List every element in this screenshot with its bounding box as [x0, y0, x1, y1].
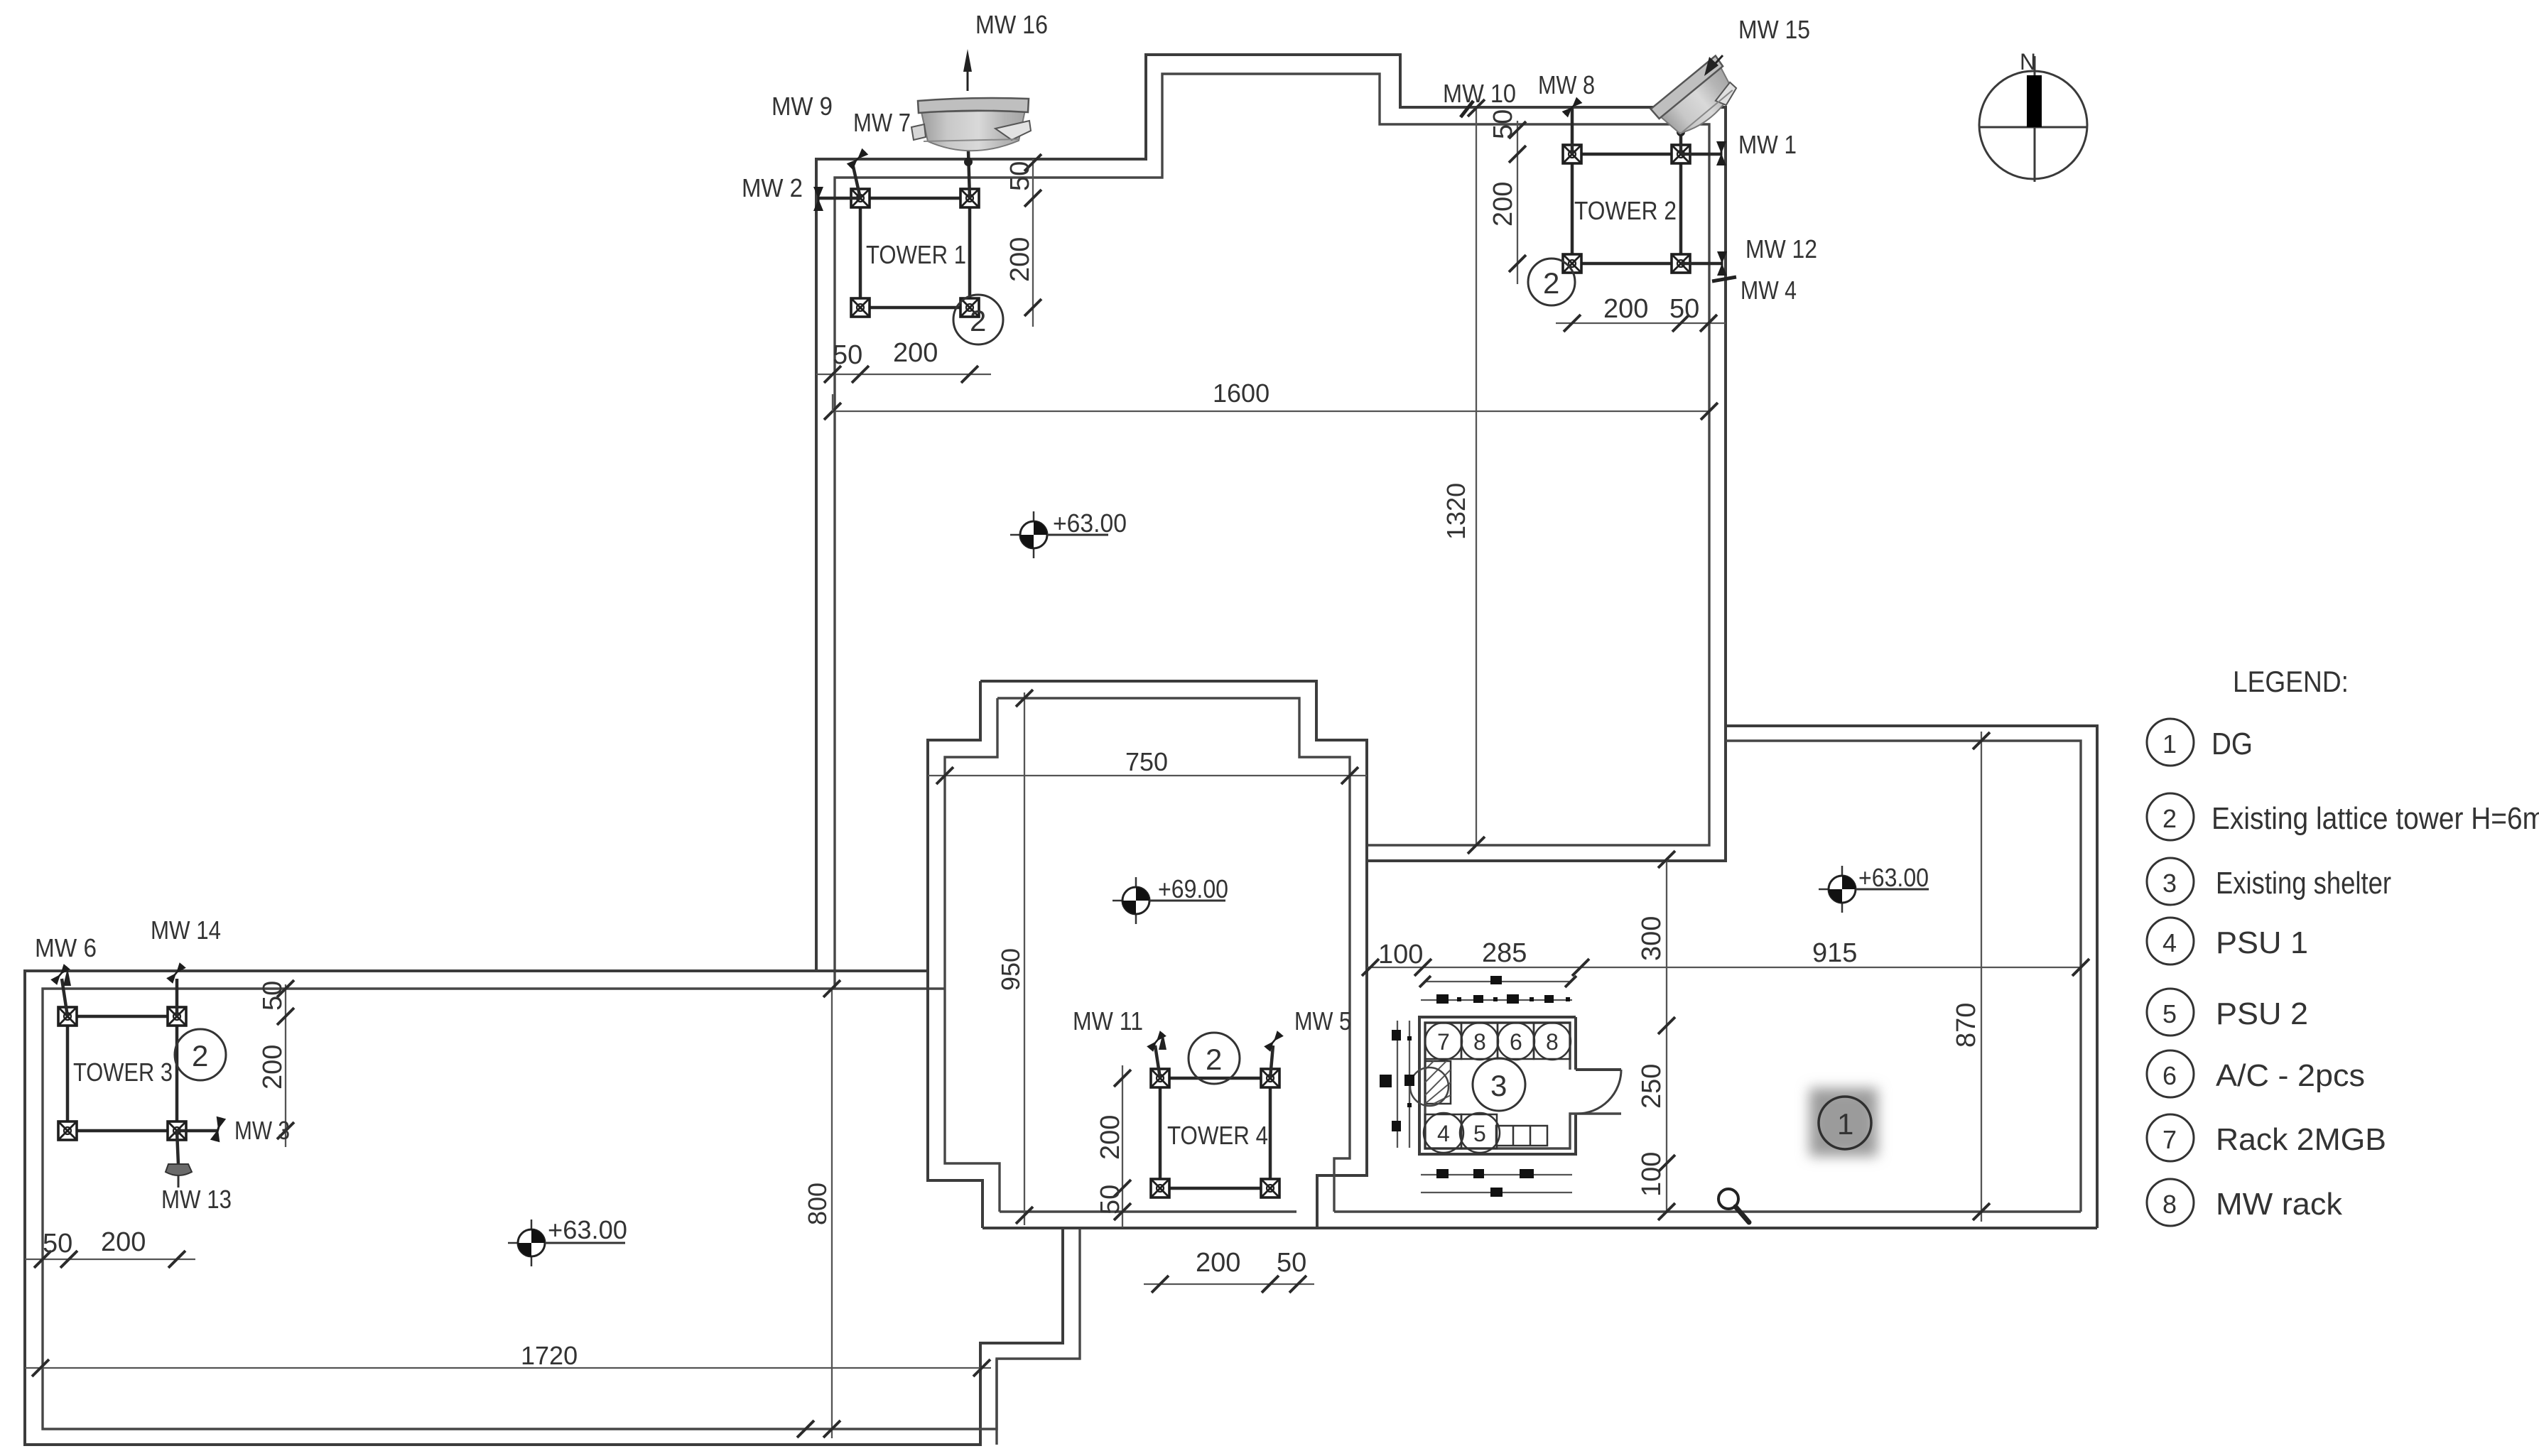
circle label 2 tower2 — [1528, 259, 1575, 305]
svg-text:950: 950 — [996, 948, 1025, 991]
post T1 SE — [960, 298, 979, 317]
wall: central structure outer — [928, 681, 1367, 1228]
svg-text:8: 8 — [1546, 1029, 1559, 1055]
svg-text:5: 5 — [1473, 1121, 1486, 1146]
svg-text:MW 12: MW 12 — [1745, 234, 1817, 264]
wire MW6 feed — [62, 979, 67, 1016]
rack row squares 7/8/6/8 — [1425, 1023, 1571, 1060]
dim 800 — [803, 980, 840, 1438]
svg-text:50: 50 — [833, 340, 862, 370]
dim tower1 horizontal 50/200 — [816, 338, 991, 383]
shelter door arc — [1577, 1070, 1621, 1114]
svg-text:MW 10: MW 10 — [1443, 79, 1516, 108]
svg-text:MW 2: MW 2 — [742, 173, 803, 202]
antenna MW6 — [50, 964, 70, 985]
svg-text:3: 3 — [2162, 869, 2177, 898]
arrow MW15 — [1704, 55, 1723, 76]
svg-text:+63.00: +63.00 — [548, 1215, 627, 1244]
post T2 SW — [1563, 254, 1581, 273]
PSU squares 4/5 — [1424, 1113, 1500, 1153]
svg-text:MW 5: MW 5 — [1294, 1006, 1351, 1036]
antenna MW12 — [1717, 251, 1727, 276]
tower T4 frame — [1160, 1078, 1270, 1188]
svg-text:MW 11: MW 11 — [1073, 1006, 1143, 1036]
post T1 SW — [851, 298, 870, 317]
wall: corridor stub below — [995, 1359, 997, 1445]
svg-text:MW 1: MW 1 — [1738, 130, 1797, 159]
svg-text:8: 8 — [1473, 1029, 1486, 1055]
svg-text:MW 9: MW 9 — [772, 92, 833, 121]
node MW7 — [964, 158, 973, 166]
wire corner feed — [1679, 128, 1683, 154]
benchmark +63.00 upper — [1010, 509, 1127, 558]
wire MW5 feed — [1270, 1045, 1273, 1078]
circle label 2 tower1 — [953, 295, 1003, 344]
shelter inner wall — [1425, 1023, 1621, 1148]
cable tray below shelter — [1421, 1169, 1572, 1197]
wire MW14 feed — [175, 979, 179, 1016]
dim tower1 vertical 50/200 — [1005, 154, 1041, 327]
antenna MW2 — [813, 187, 823, 211]
magnifier mark — [1718, 1189, 1749, 1222]
post T2 NE — [1672, 145, 1690, 163]
svg-text:750: 750 — [1125, 747, 1168, 776]
wire MW12 feed — [1681, 262, 1722, 266]
antenna MW1 — [1716, 141, 1726, 165]
svg-text:800: 800 — [803, 1183, 832, 1225]
wall: bottom edge of central + right section (outer) — [982, 1227, 2097, 1229]
cable tray above shelter — [1419, 976, 1576, 1004]
svg-text:285: 285 — [1482, 938, 1527, 968]
node T2 — [1677, 128, 1685, 136]
dim 1320 — [1441, 99, 1485, 854]
circle label 3 shelter — [1473, 1058, 1525, 1111]
wire MW11 feed — [1155, 1045, 1160, 1078]
antenna MW11 — [1147, 1031, 1166, 1052]
wall: lower-right rectangle inner — [1726, 741, 2081, 1212]
arrow MW6 — [63, 968, 71, 986]
benchmark +69.00 central — [1112, 874, 1228, 924]
dim 1720 — [25, 1341, 991, 1376]
dim tower3 vertical 50/200 — [258, 980, 294, 1147]
svg-text:5: 5 — [2162, 999, 2177, 1028]
arrow MW11 — [1159, 1033, 1166, 1050]
svg-text:2: 2 — [192, 1039, 208, 1072]
svg-text:MW 14: MW 14 — [151, 916, 221, 945]
tower T3 frame — [67, 1016, 177, 1131]
svg-text:MW 4: MW 4 — [1741, 276, 1797, 305]
svg-text:1720: 1720 — [521, 1341, 578, 1370]
antenna MW3 — [210, 1117, 226, 1142]
svg-text:2: 2 — [970, 304, 986, 337]
shelter outer wall — [1419, 1017, 1621, 1154]
post T3 SW — [58, 1121, 77, 1140]
svg-text:MW 6: MW 6 — [35, 933, 97, 962]
svg-text:Existing lattice tower H=6m: Existing lattice tower H=6m — [2212, 801, 2539, 836]
wall: lower-right rectangle outer — [1726, 726, 2097, 1228]
wall: upper-left+top inner boundary — [835, 74, 1709, 989]
svg-text:1320: 1320 — [1441, 483, 1471, 540]
svg-text:MW 16: MW 16 — [975, 10, 1048, 39]
svg-text:50: 50 — [258, 981, 288, 1011]
svg-text:PSU 2: PSU 2 — [2216, 996, 2308, 1031]
post T1 NE — [960, 189, 979, 207]
svg-text:6: 6 — [2162, 1061, 2177, 1090]
circle label 2 tower4 — [1189, 1033, 1240, 1084]
svg-text:+63.00: +63.00 — [1053, 509, 1127, 538]
svg-text:1: 1 — [2162, 729, 2177, 759]
dim tower3 horizontal 50/200 — [25, 1227, 195, 1268]
svg-text:PSU 1: PSU 1 — [2216, 925, 2308, 960]
wire MW8 feed — [1571, 108, 1574, 154]
dim 300/250/100 vertical chain — [1637, 851, 1675, 1220]
svg-text:100: 100 — [1637, 1152, 1667, 1197]
svg-text:200: 200 — [1488, 182, 1518, 227]
wire MW7 feed — [968, 151, 970, 198]
svg-text:LEGEND:: LEGEND: — [2233, 665, 2349, 698]
antenna MW15 drum — [1650, 55, 1744, 143]
antenna MW10 mark — [1461, 101, 1473, 117]
svg-text:200: 200 — [1005, 237, 1035, 282]
dim 1600 — [824, 379, 1718, 420]
dim tower2 horizontal 200/50 — [1556, 294, 1726, 332]
wire MW9 feed — [852, 163, 860, 198]
post T2 SE — [1672, 254, 1690, 273]
wall: bottom edge inner segments — [1000, 1210, 1296, 1212]
svg-text:7: 7 — [2162, 1125, 2177, 1154]
svg-text:TOWER 3: TOWER 3 — [73, 1058, 173, 1087]
tower T1 frame — [860, 198, 970, 308]
svg-text:50: 50 — [1095, 1185, 1125, 1215]
hatched cabinet left — [1410, 1061, 1451, 1106]
antenna MW8 — [1562, 97, 1583, 118]
antenna MW4 mark — [1712, 277, 1736, 281]
post T4 NE — [1261, 1069, 1279, 1087]
svg-text:8: 8 — [2162, 1190, 2177, 1219]
post T3 SE — [168, 1121, 186, 1140]
svg-text:200: 200 — [1196, 1248, 1240, 1278]
post T3 NE — [168, 1007, 186, 1026]
antenna MW13 — [166, 1164, 192, 1175]
svg-text:50: 50 — [1669, 294, 1699, 324]
svg-text:1600: 1600 — [1213, 379, 1269, 408]
dim 100/285/915 — [1362, 938, 2089, 976]
svg-text:MW 13: MW 13 — [161, 1185, 232, 1214]
svg-text:A/C - 2pcs: A/C - 2pcs — [2216, 1058, 2365, 1093]
svg-text:N: N — [2020, 49, 2036, 75]
svg-text:MW 3: MW 3 — [234, 1116, 290, 1145]
dim tower4 horizontal 200/50 — [1144, 1248, 1314, 1293]
post T4 SE — [1261, 1179, 1279, 1197]
svg-text:870: 870 — [1951, 1003, 1981, 1048]
svg-text:50: 50 — [1005, 161, 1035, 191]
tower T2 frame — [1572, 154, 1681, 264]
wall: central structure inner — [945, 698, 1350, 1212]
wall: bottom-left rectangle inner — [43, 989, 1080, 1429]
dim tower2 vertical 50/200 — [1488, 109, 1526, 284]
arrow MW16 — [963, 49, 972, 91]
dim 870 — [1951, 732, 1990, 1222]
dim 750 — [928, 747, 1367, 784]
post T2 NW — [1563, 145, 1581, 163]
svg-text:+63.00: +63.00 — [1858, 863, 1929, 892]
svg-text:MW 8: MW 8 — [1538, 70, 1595, 99]
svg-text:3: 3 — [1490, 1069, 1507, 1102]
svg-text:200: 200 — [1603, 294, 1648, 324]
antenna MW5 — [1264, 1031, 1284, 1052]
svg-text:6: 6 — [1510, 1029, 1522, 1055]
svg-text:7: 7 — [1437, 1029, 1450, 1055]
svg-text:50: 50 — [1488, 109, 1518, 139]
dim 950 — [996, 690, 1033, 1225]
cable tray left of shelter — [1380, 1021, 1414, 1148]
svg-text:1: 1 — [1837, 1107, 1853, 1141]
svg-text:200: 200 — [1095, 1115, 1125, 1160]
svg-text:Existing shelter: Existing shelter — [2216, 866, 2391, 901]
benchmark +63.00 lower-left — [508, 1215, 627, 1266]
svg-text:250: 250 — [1637, 1064, 1667, 1109]
svg-text:200: 200 — [101, 1227, 146, 1257]
svg-text:TOWER 2: TOWER 2 — [1574, 196, 1677, 225]
svg-text:Rack 2MGB: Rack 2MGB — [2216, 1122, 2386, 1157]
svg-text:300: 300 — [1637, 916, 1667, 961]
svg-text:MW 15: MW 15 — [1738, 15, 1810, 44]
svg-text:200: 200 — [258, 1045, 288, 1090]
svg-text:MW 7: MW 7 — [853, 108, 911, 137]
svg-text:DG: DG — [2212, 727, 2253, 761]
dim tower4 vertical 200/50 — [1095, 1065, 1131, 1227]
wall: bottom-left rectangle outer — [25, 971, 1063, 1445]
post T4 NW — [1151, 1069, 1169, 1087]
svg-text:50: 50 — [43, 1229, 72, 1259]
svg-text:4: 4 — [1437, 1121, 1450, 1146]
post T4 SW — [1151, 1179, 1169, 1197]
svg-text:4: 4 — [2162, 928, 2177, 957]
svg-text:2: 2 — [1206, 1043, 1222, 1076]
svg-text:+69.00: +69.00 — [1158, 874, 1228, 903]
svg-text:200: 200 — [893, 338, 938, 368]
antenna MW14 — [166, 962, 186, 984]
post T3 NW — [58, 1007, 77, 1026]
wall: upper-left+top outer boundary — [816, 55, 1726, 971]
wire MW3 feed — [177, 1129, 218, 1133]
svg-text:MW rack: MW rack — [2216, 1187, 2343, 1222]
wire MW2 feed — [818, 197, 860, 200]
post T1 NW — [851, 189, 870, 207]
svg-text:TOWER 1: TOWER 1 — [866, 240, 966, 269]
svg-text:100: 100 — [1378, 940, 1423, 969]
tick on bottom line — [797, 1420, 814, 1438]
circle label 2 tower3 — [175, 1029, 226, 1080]
antenna MW9 — [847, 148, 869, 170]
svg-text:50: 50 — [1277, 1248, 1306, 1278]
wire MW13 feed — [177, 1131, 178, 1165]
svg-text:2: 2 — [2162, 804, 2177, 833]
battery table — [1496, 1126, 1547, 1146]
antenna MW7 drum — [911, 98, 1031, 151]
svg-text:915: 915 — [1812, 938, 1857, 968]
wire MW1 feed — [1681, 153, 1722, 156]
svg-text:2: 2 — [1543, 266, 1559, 300]
svg-text:TOWER 4: TOWER 4 — [1167, 1121, 1268, 1150]
benchmark +63.00 right — [1819, 863, 1929, 913]
